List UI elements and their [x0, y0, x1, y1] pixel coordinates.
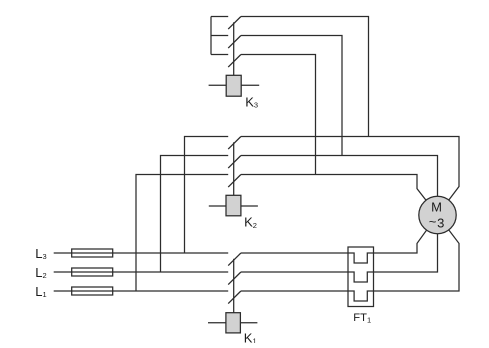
- wire: K3 contact2 right wire to motor lead U2: [241, 36, 342, 156]
- wire: K3 contact3 right wire to motor lead V2: [241, 55, 316, 175]
- contact K2.1 blade: [228, 137, 241, 150]
- wire: K2 coil right lead: [241, 205, 258, 207]
- contact K2.3 blade: [228, 175, 241, 188]
- svg-text:3: 3: [437, 216, 444, 231]
- coil K3: [226, 75, 241, 96]
- coil K2: [226, 195, 241, 216]
- wire: K3 contact1 right wire to motor lead W2: [241, 17, 369, 137]
- wire: K1 coil left lead: [208, 322, 226, 324]
- wire: line L1 through fuse: [72, 290, 113, 292]
- wire: tap from line L2 up to K2 contact2: [161, 156, 229, 273]
- fuse on line L1: [72, 287, 113, 295]
- wire: K3 contact2 left stub: [211, 35, 228, 37]
- wire: K2 contact2 right wire to motor (top): [241, 156, 438, 216]
- wire: tap from line L3 up to K2 contact1: [185, 137, 229, 254]
- wire: phase 2 through FT1 heater to motor lead V1: [241, 215, 438, 282]
- contact K3.1 blade: [228, 17, 241, 30]
- fuse on line L3: [72, 249, 113, 257]
- wire: K2 coil left lead: [209, 205, 226, 207]
- svg-text:L1: L1: [35, 284, 46, 299]
- wire: K3 contact1 left stub: [211, 16, 228, 18]
- motor M: [419, 196, 456, 233]
- contact K1.3 blade: [228, 291, 241, 304]
- fuse on line L2: [72, 268, 113, 276]
- contact K1.2 blade: [228, 272, 241, 285]
- contact K2.2 blade: [228, 156, 241, 169]
- wire: line L3 through fuse: [72, 252, 113, 254]
- contact K3.3 blade: [228, 55, 241, 68]
- contact K3.2 blade: [228, 36, 241, 49]
- thermal overload relay FT1 body: [348, 247, 374, 307]
- wire: K3 coil right lead: [241, 84, 259, 86]
- svg-text:K3: K3: [245, 94, 258, 109]
- wire: K3 contact3 left stub: [211, 54, 228, 56]
- svg-text:L3: L3: [35, 246, 46, 261]
- wire: supply line L3: [54, 252, 229, 254]
- svg-text:M: M: [431, 200, 442, 215]
- svg-text:L2: L2: [35, 265, 46, 280]
- svg-text:FT1: FT1: [353, 312, 371, 324]
- wire: K2 mechanical linkage: [233, 142, 235, 195]
- wire: supply line L1: [54, 290, 229, 292]
- wire: phase 1 through FT1 heater to motor lead U1: [241, 215, 438, 263]
- wire: K3 coil left lead: [209, 84, 226, 86]
- wire: K2 contact1 right wire to motor (upper right): [241, 137, 459, 216]
- svg-text:K2: K2: [244, 215, 257, 230]
- node: star point bus of contactor K3: [210, 17, 212, 55]
- coil K1: [226, 313, 241, 333]
- wire: tap from line L1 up to K2 contact3: [136, 175, 228, 292]
- wire: K3 mechanical linkage: [233, 22, 235, 75]
- contact K1.1 blade: [228, 253, 241, 266]
- svg-text:~: ~: [429, 214, 437, 229]
- wire: K1 coil right lead: [241, 322, 258, 324]
- wire: phase 3 through FT1 heater to motor lead W1: [241, 215, 459, 301]
- wire: K1 mechanical linkage: [233, 259, 235, 313]
- svg-text:K1: K1: [244, 330, 257, 343]
- wire: line L2 through fuse: [72, 271, 113, 273]
- wire: K2 contact3 right wire to motor (upper left): [241, 175, 438, 216]
- wire: supply line L2: [54, 271, 229, 273]
